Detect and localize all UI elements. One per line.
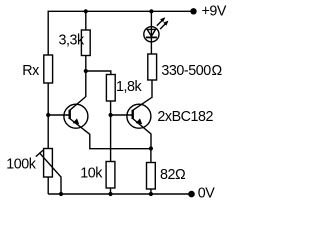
terminal dot 0V [188, 191, 195, 198]
resistor Rx body [44, 55, 53, 83]
junction dot pot wiper/bottom rail [59, 192, 63, 196]
potentiometer 100k wiper T-bar [36, 150, 43, 157]
LED light arrow 1 [157, 18, 165, 26]
resistor 82ohm top lead from emitter node [150, 149, 152, 163]
svg-text:Rx: Rx [22, 63, 39, 79]
transistor Q2 base bar [131, 110, 133, 119]
resistor 1,8k body [106, 75, 115, 102]
svg-text:0V: 0V [198, 186, 216, 201]
terminal dot +9V [190, 8, 196, 14]
arrowhead Q2 emitter [136, 118, 143, 124]
resistor 330-500 body [148, 54, 157, 80]
svg-text:2xBC182: 2xBC182 [157, 109, 213, 125]
LED cathode bar [146, 36, 157, 38]
junction dot Q2 base/column C [109, 113, 113, 117]
junction node collector/3.3k/1.8k [84, 69, 88, 73]
LED D1 circle [144, 27, 159, 42]
svg-text:10k: 10k [80, 166, 103, 182]
wire left column lower (pot bottom to bottom rail) [47, 177, 49, 194]
svg-text:330-500 Ω: 330-500 Ω [161, 63, 222, 79]
LED wire through symbol [150, 27, 152, 54]
wire 10k bottom lead to rail [110, 188, 112, 194]
wire 3.3k bottom lead to collector node [85, 56, 87, 72]
transistor Q1 emitter (diagonal, down, then right to emitter bus) [70, 119, 151, 149]
junction dot rail/LED [149, 9, 153, 13]
wire left column middle (Rx bottom through base node to pot top) [47, 83, 49, 149]
transistor Q2 circle [127, 104, 151, 128]
wire top supply rail [48, 10, 193, 12]
potentiometer 100k body [44, 149, 53, 178]
arrowhead Q1 emitter [73, 118, 80, 124]
potentiometer 100k wiper arrow diagonal and wire to bottom rail [39, 153, 61, 194]
wire column C (1,8k bottom through Q2 base node to 10k top) [110, 101, 112, 162]
arrowhead LED arrow 1 [160, 17, 165, 22]
wire bottom 0V rail [48, 193, 191, 195]
LED light arrow 2 [160, 22, 168, 30]
resistor 3,3k body [81, 30, 90, 56]
transistor Q1 collector (diagonal up to 3.3k node vertical) [70, 71, 86, 110]
resistor 10k body [106, 162, 115, 189]
wire 82ohm bottom lead to rail [150, 189, 152, 194]
junction dot rail/3.3k [84, 9, 88, 13]
svg-text:1,8k: 1,8k [116, 79, 143, 95]
junction dot 10k/bottom rail [108, 192, 112, 196]
junction dot Q1 base/left column [46, 113, 50, 117]
wire 3.3k top lead from rail [85, 11, 87, 30]
svg-text:3,3k: 3,3k [59, 32, 86, 48]
wire left column upper (rail corner to Rx top) [47, 11, 49, 55]
junction dot emitter bus/82ohm [149, 146, 153, 150]
wire Q1 base from left column [48, 114, 68, 116]
LED triangle outline [147, 29, 155, 36]
transistor Q1 circle [64, 104, 88, 128]
wire node to 1,8k top [86, 71, 111, 75]
resistor 82ohm body [147, 163, 156, 190]
arrowhead LED arrow 2 [163, 21, 168, 26]
junction dot 82ohm/bottom rail [149, 192, 153, 196]
svg-text:100k: 100k [6, 157, 37, 173]
svg-text:+9V: +9V [202, 4, 227, 20]
wire Q2 base from column C [111, 114, 132, 116]
svg-text:82Ω: 82Ω [160, 167, 186, 183]
transistor Q2 collector (diagonal up to 330-500 lead) [133, 80, 152, 110]
wire LED top lead from rail [150, 11, 152, 26]
transistor Q2 emitter (diagonal then down to 82ohm node) [133, 119, 151, 149]
transistor Q1 base bar [68, 110, 70, 119]
